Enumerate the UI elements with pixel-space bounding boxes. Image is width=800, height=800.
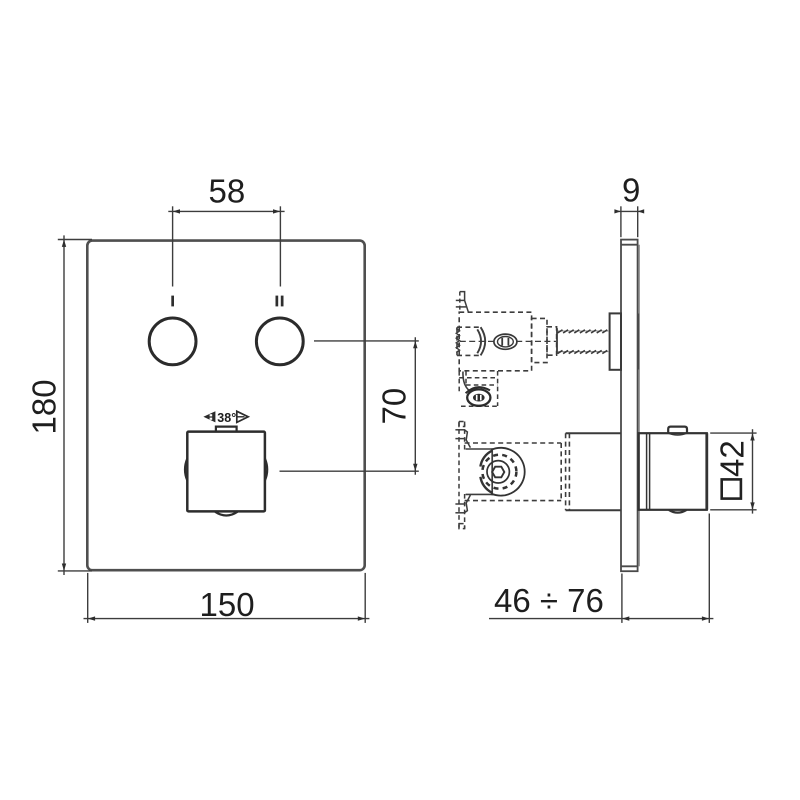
sleeve hidden edges bbox=[565, 433, 567, 510]
fixing nut rim arc bbox=[466, 387, 490, 393]
bracket arm curve bbox=[463, 372, 471, 392]
wall plate side view bbox=[621, 240, 639, 572]
knob I label bbox=[171, 296, 174, 307]
knob II label bbox=[276, 296, 284, 307]
thermostatic square knob front bbox=[185, 427, 267, 516]
dim 42 arrow top bbox=[750, 433, 754, 440]
knob top tab bbox=[216, 427, 237, 432]
knob right side bump bbox=[265, 459, 267, 481]
dim 150 arrow right bbox=[358, 616, 365, 620]
dim 150 extension left bbox=[87, 573, 89, 623]
knob face edge bbox=[705, 433, 708, 510]
svg-text:150: 150 bbox=[200, 586, 255, 623]
threaded tube thread edges bbox=[557, 328, 608, 354]
dim square symbol for 42 bbox=[722, 479, 741, 498]
dim 180 arrow top bbox=[62, 240, 66, 247]
top wall clip bbox=[456, 292, 469, 313]
knob bottom bump arc bbox=[215, 512, 237, 516]
threaded tube edge lines bbox=[558, 331, 609, 352]
dim 9 bbox=[614, 206, 644, 237]
bracket clip bottom bbox=[455, 495, 470, 513]
dim 70 line bbox=[414, 337, 416, 475]
valve body hidden outline bbox=[465, 433, 570, 510]
svg-text:180: 180 bbox=[26, 379, 63, 434]
dim 46-76 line bbox=[489, 618, 713, 620]
valve neck top line bbox=[466, 448, 492, 450]
dim 42 line bbox=[752, 429, 754, 513]
tube base line bbox=[556, 328, 558, 354]
dim 46-76 arrow left bbox=[622, 616, 629, 620]
valve knurl ring hidden bbox=[482, 455, 516, 489]
dim 70 extension top from knob II centre bbox=[314, 340, 419, 342]
fixing nut core bbox=[473, 394, 485, 402]
lower bracket arm hidden bbox=[459, 371, 497, 406]
fixing nut slots bbox=[476, 395, 478, 401]
valve cap chamfer arc upper bbox=[480, 451, 491, 467]
svg-text:46 ÷ 76: 46 ÷ 76 bbox=[494, 582, 604, 619]
dim 180 line bbox=[63, 235, 65, 575]
dim 150 line bbox=[84, 618, 370, 620]
bracket clip top bbox=[455, 430, 470, 448]
knob II circle bbox=[256, 318, 303, 365]
valve cap chord line bbox=[491, 448, 493, 495]
svg-text:58: 58 bbox=[209, 173, 246, 210]
dim 58 extension line left bbox=[172, 206, 174, 286]
knob left side bump bbox=[185, 459, 187, 481]
wall bracket rail hidden bbox=[459, 422, 465, 529]
dim 42 extension bottom bbox=[710, 509, 756, 511]
38 degree indicator left arrow bbox=[203, 411, 215, 422]
svg-text:9: 9 bbox=[622, 172, 640, 209]
valve neck bottom line bbox=[466, 493, 492, 495]
dim 150 arrow left bbox=[88, 616, 95, 620]
escutcheon flange at plate (top assembly) bbox=[610, 313, 621, 369]
cartridge neck step 1 hidden bbox=[532, 318, 547, 362]
dim 180 extension bottom bbox=[58, 570, 92, 572]
valve cap chamfer arc lower bbox=[480, 477, 491, 493]
dim 70 arrow top bbox=[413, 341, 417, 348]
dim 58 arrow left bbox=[173, 209, 180, 213]
valve cap outer arc bbox=[491, 448, 525, 496]
wall plate front view bbox=[87, 241, 364, 571]
svg-text:70: 70 bbox=[376, 388, 413, 425]
dim 150 extension right bbox=[364, 573, 366, 623]
dim 70 extension bottom from square knob centre bbox=[280, 470, 419, 472]
cartridge body hidden outline bbox=[459, 312, 531, 371]
valve inner ring bbox=[487, 461, 509, 483]
through-wall sleeve solid bbox=[566, 433, 621, 510]
grub screw slot bbox=[502, 338, 508, 346]
plate shadow right bbox=[638, 245, 640, 567]
dim 46-76 arrow right bbox=[702, 616, 709, 620]
grub screw ellipse outer bbox=[494, 334, 517, 349]
cartridge neck step 2 hidden bbox=[547, 327, 557, 355]
dim 180 extension top bbox=[58, 239, 92, 241]
dim 180 arrow bottom bbox=[62, 564, 66, 571]
dim 58 extension line right bbox=[279, 206, 281, 286]
dim 58 arrow right bbox=[273, 209, 280, 213]
dim 70 arrow bottom bbox=[413, 464, 417, 471]
plate chamfer line top bbox=[621, 244, 638, 246]
assembly centre line bbox=[460, 340, 556, 342]
valve centre hex socket bbox=[492, 467, 504, 478]
svg-text:42: 42 bbox=[714, 440, 751, 477]
svg-text:38°: 38° bbox=[217, 411, 236, 425]
knob side tab top bbox=[668, 427, 687, 433]
grub screw ellipse inner bbox=[498, 337, 514, 347]
knob side bottom bump bbox=[669, 510, 687, 513]
dim 46-76 extension right bbox=[708, 514, 710, 623]
knob side tab underside arc bbox=[668, 433, 687, 435]
dim 42 arrow bottom bbox=[750, 502, 754, 509]
inlet port arc bbox=[477, 327, 485, 355]
fixing nut ellipse bbox=[467, 389, 490, 405]
knob collar lines bbox=[646, 433, 648, 510]
cartridge inlet port hidden bbox=[457, 327, 481, 355]
38 degree indicator right arrow bbox=[237, 411, 248, 422]
port thread serration bbox=[456, 329, 459, 353]
knob side body bbox=[639, 427, 707, 513]
dim 58 line bbox=[168, 210, 284, 212]
cartridge shadow on plate edge bbox=[637, 314, 639, 370]
dim 46-76 extension left bbox=[621, 574, 623, 623]
knob I circle bbox=[149, 318, 196, 365]
dim 42 extension top bbox=[710, 432, 756, 434]
plate chamfer line bottom bbox=[621, 565, 638, 567]
